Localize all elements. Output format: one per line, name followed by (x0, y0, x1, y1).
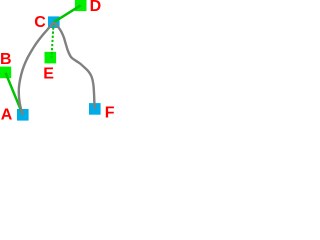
svg-text:D: D (90, 0, 102, 15)
node B square (0, 67, 11, 79)
edge C-E dotted green (52, 22, 54, 57)
node D square (75, 0, 87, 11)
edge C-D green (54, 5, 81, 22)
svg-text:E: E (43, 65, 54, 82)
node E square (45, 52, 57, 64)
node A square (17, 109, 29, 121)
svg-text:C: C (34, 14, 46, 31)
node F square (89, 103, 101, 115)
svg-text:A: A (1, 107, 13, 121)
svg-text:F: F (105, 105, 115, 121)
edge B-A green (6, 73, 23, 115)
edge C-F gray curve (54, 22, 95, 109)
node C square (48, 16, 60, 28)
svg-text:B: B (0, 51, 12, 68)
edge A-C gray curve (19, 22, 54, 115)
